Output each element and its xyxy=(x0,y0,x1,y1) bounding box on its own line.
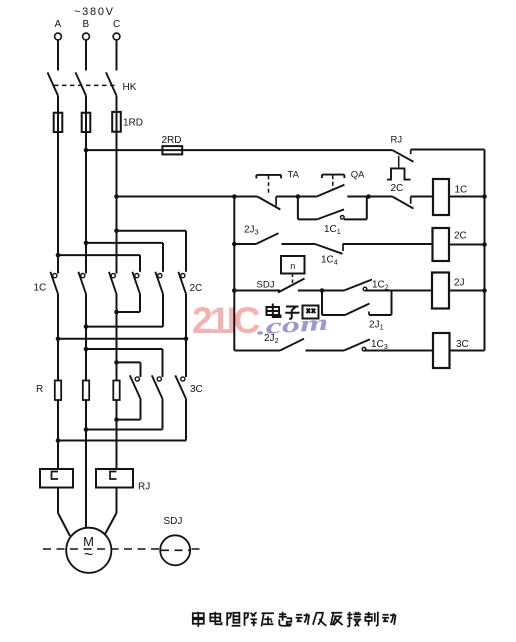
contactor 2C pole 5 xyxy=(155,272,163,294)
wire tap C to 3C pole1 xyxy=(117,361,141,363)
switch HK blade C xyxy=(106,72,117,95)
svg-text:3C: 3C xyxy=(190,384,203,395)
svg-text:QA: QA xyxy=(351,170,365,181)
coupling dashed shaft xyxy=(43,548,203,550)
contactor 3C pole 3 xyxy=(58,375,186,440)
contactor 1C pole 2 xyxy=(78,272,86,294)
contactor 2C pole 6 xyxy=(178,272,186,294)
junction pole6 tie xyxy=(184,337,189,342)
svg-text:HK: HK xyxy=(123,82,137,93)
svg-text:n: n xyxy=(290,261,295,271)
wire pole3 bottom xyxy=(116,294,118,381)
caption chuandianzu jiangya qidong ji fanjie zhidong xyxy=(193,612,396,627)
junction 3C pole1 to line C xyxy=(114,417,119,422)
resistor R line A xyxy=(55,381,61,401)
wire phase B xyxy=(85,96,87,274)
junction 3C pole3 to line A xyxy=(56,438,61,443)
junction rail row2 xyxy=(232,242,237,247)
svg-text:SDJ: SDJ xyxy=(257,280,275,291)
control left rail xyxy=(233,197,235,351)
svg-text:RJ: RJ xyxy=(391,135,403,146)
wire pole1 bottom xyxy=(57,294,59,381)
contact 1C1 self-hold branch xyxy=(298,197,367,220)
speed relay SDJ element xyxy=(281,256,305,286)
thermal relay RJ heater box C xyxy=(96,469,133,513)
svg-text:~380V: ~380V xyxy=(74,6,114,18)
junction rail row3 xyxy=(232,288,237,293)
thermal relay RJ contact xyxy=(387,150,485,180)
wire lead A to motor xyxy=(58,513,70,536)
junction 3C pole2 to line B xyxy=(84,427,89,432)
resistor R line C xyxy=(113,381,119,401)
contactor 1C pole 1 xyxy=(50,272,58,294)
coil 3C xyxy=(433,333,485,368)
contactor 2C pole 4 xyxy=(132,272,140,294)
junction xyxy=(84,347,89,352)
fuse 1RD pole A xyxy=(54,113,63,132)
contactor 3C pole 2 xyxy=(86,375,163,429)
svg-text:1C: 1C xyxy=(34,283,47,294)
svg-text:A: A xyxy=(55,19,62,30)
svg-text:C: C xyxy=(113,19,120,30)
wire pole4 bottom xyxy=(139,294,141,312)
wire line A lower xyxy=(57,400,59,469)
pushbutton TA (stop) xyxy=(234,175,298,210)
coupling dashes inside SDJ xyxy=(161,549,190,551)
control right rail xyxy=(484,150,486,351)
junction poles 3-4 xyxy=(114,310,119,315)
svg-text:1C: 1C xyxy=(455,185,468,196)
junction xyxy=(114,228,119,233)
svg-text:2C: 2C xyxy=(391,183,404,194)
contact SDJ xyxy=(234,279,322,293)
wire tap B to 3C pole2 xyxy=(86,348,163,350)
terminal C xyxy=(113,19,120,71)
junction right rail row3 xyxy=(482,288,487,293)
node row3 xyxy=(320,288,325,293)
svg-text:2J: 2J xyxy=(454,278,465,289)
svg-text:R: R xyxy=(36,384,43,395)
fuse 2RD xyxy=(162,146,182,154)
contact 1C3 xyxy=(344,339,433,351)
node row1 a xyxy=(296,194,301,199)
wire tie poles 1-6 xyxy=(58,338,186,340)
junction pole1 tie xyxy=(56,337,61,342)
wire phase C xyxy=(116,96,118,274)
junction right rail row1 xyxy=(482,194,487,199)
coil 2J xyxy=(432,273,485,309)
junction xyxy=(56,253,61,258)
svg-text:2C: 2C xyxy=(454,231,467,242)
junction xyxy=(114,360,119,365)
coupling dashes inside motor xyxy=(70,548,108,550)
svg-text:1RD: 1RD xyxy=(123,118,143,129)
switch HK blade A xyxy=(48,72,59,95)
wire 2RD branch xyxy=(86,149,392,151)
contact 2C normally closed xyxy=(369,197,434,209)
contactor 3C pole 1 xyxy=(117,375,141,419)
speed relay SDJ body xyxy=(160,535,190,565)
wire phase A xyxy=(57,96,59,274)
terminal B xyxy=(83,19,90,71)
wire tap C to 2C pole6 xyxy=(117,230,187,232)
junction phase C control tap xyxy=(114,194,119,199)
node row1 b xyxy=(366,194,371,199)
wire tap A to 2C pole4 xyxy=(58,254,140,256)
contactor 1C pole 3 xyxy=(109,272,117,294)
wire lead C to motor xyxy=(104,513,117,536)
junction on phase B xyxy=(84,148,89,153)
thermal relay RJ heater box A xyxy=(40,469,73,513)
coil 2C xyxy=(433,228,485,261)
contact 2J2 xyxy=(234,339,344,351)
wire line B lower xyxy=(85,400,87,528)
svg-text:B: B xyxy=(83,19,90,30)
svg-text:21IC: 21IC xyxy=(192,299,260,341)
junction poles 2-5 xyxy=(84,324,89,329)
fuse 1RD pole C xyxy=(112,112,121,132)
contact 1C2 xyxy=(322,280,432,291)
junction right rail row2 xyxy=(482,242,487,247)
motor M xyxy=(66,528,111,573)
contact 2J3 xyxy=(234,233,315,244)
svg-text:TA: TA xyxy=(288,170,300,181)
junction xyxy=(84,241,89,246)
wire tap B to 2C pole5 xyxy=(86,242,163,244)
wire pole5 bottom xyxy=(162,294,164,327)
svg-text:2C: 2C xyxy=(190,283,203,294)
switch HK blade B xyxy=(76,72,87,95)
junction rail row1 xyxy=(232,194,237,199)
wire pole6 bottom xyxy=(185,294,187,377)
wire control feed xyxy=(117,196,235,198)
resistor R line B xyxy=(83,381,89,401)
wire pole2 bottom xyxy=(85,294,87,381)
watermark dianziwang glyphs xyxy=(267,304,319,319)
wire lead B to motor xyxy=(85,513,87,529)
terminal A xyxy=(55,19,62,71)
coil 1C xyxy=(433,179,485,215)
switch HK linkage xyxy=(54,84,115,86)
wire line C lower xyxy=(116,400,118,469)
pushbutton QA (start) xyxy=(298,175,369,197)
svg-text:RJ: RJ xyxy=(138,482,150,493)
svg-text:3C: 3C xyxy=(456,339,469,350)
watermark 21IC logo xyxy=(192,299,260,341)
svg-text:SDJ: SDJ xyxy=(164,516,183,527)
contact 1C4 normally closed xyxy=(315,244,433,254)
fuse 1RD pole B xyxy=(82,113,91,132)
watermark .com script xyxy=(256,310,330,340)
svg-text:2RD: 2RD xyxy=(162,135,182,146)
contact 2J1 parallel branch xyxy=(322,291,392,316)
